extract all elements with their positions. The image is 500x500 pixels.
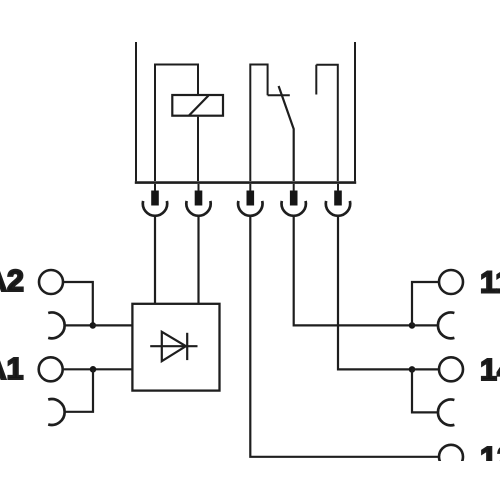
terminal socket 1 <box>143 201 167 216</box>
svg-text:A2: A2 <box>0 264 24 298</box>
terminal socket 4 <box>282 201 306 216</box>
wire: terminal 1 lead <box>154 184 156 216</box>
svg-text:12: 12 <box>480 441 500 475</box>
wire: terminal 3 down and across to terminal 12 <box>250 216 439 457</box>
socket 11 <box>438 312 454 338</box>
junction: A2 node <box>90 322 97 329</box>
wire: terminal 5 down and across to node 14 <box>338 216 412 369</box>
socket A1 <box>48 399 64 425</box>
bridge rectifier U1 <box>132 304 219 391</box>
junction: A1 node <box>90 366 97 373</box>
wire: coil lower lead to terminal 2 <box>197 117 199 181</box>
wire: socket A2 to junction <box>64 324 92 326</box>
wire: terminal 4 lead <box>293 184 295 191</box>
terminal socket 3 <box>238 201 262 216</box>
wire: terminal 4 down and across to node 11 <box>294 216 412 325</box>
terminal 14 (circle) <box>439 357 463 381</box>
terminal A2 (circle) <box>39 270 63 294</box>
wire: A1 to rectifier <box>64 368 133 370</box>
changeover contact: NO fixed contact stub <box>315 65 317 95</box>
terminal pin 4 (plug) <box>290 191 298 206</box>
socket A2 <box>48 313 64 339</box>
diode D1 (inside rectifier) <box>150 332 197 361</box>
wire: terminal 3 lead <box>249 184 251 191</box>
terminal pin 1 (plug) <box>151 191 159 206</box>
junction: node 11 <box>409 322 416 329</box>
wire: coil supply loop (terminal 1 up, over, down terminal 2) <box>155 65 198 182</box>
svg-text:A1: A1 <box>0 352 24 386</box>
wire: terminal 2 to rectifier <box>197 216 199 304</box>
terminal 12 (circle, cropped) <box>439 445 463 469</box>
terminal pin 3 (plug) <box>247 191 255 206</box>
relay coil K1 <box>172 95 223 116</box>
terminal socket 5 <box>326 201 350 216</box>
wire: node 11 up to terminal 11 <box>412 282 439 325</box>
terminal pin 2 (plug) <box>195 191 203 206</box>
wire: socket A1 to junction <box>64 369 93 412</box>
changeover contact: moving blade to terminal 4 <box>279 86 294 181</box>
wire: terminal 5 lead <box>337 184 339 191</box>
relay module outline (open top) <box>135 42 356 183</box>
wire: node 11 to socket 11 <box>412 324 438 326</box>
wire: A2 node to rectifier <box>93 324 133 326</box>
terminal pin 5 (plug) <box>334 191 342 206</box>
wire: NO branch to terminal 5 <box>316 65 338 181</box>
wire: A2 to junction <box>64 282 93 325</box>
wire: node 14 down to socket 14 <box>412 369 438 412</box>
wire: terminal 2 lead <box>198 184 200 191</box>
junction: node 14 <box>409 366 416 373</box>
terminal socket 2 <box>186 201 210 216</box>
terminal A1 (circle) <box>39 357 63 381</box>
svg-text:14: 14 <box>480 353 500 387</box>
wire: terminal 1 to rectifier <box>154 216 156 304</box>
svg-text:11: 11 <box>480 265 500 299</box>
terminal 11 (circle) <box>439 270 463 294</box>
wire: node 14 to terminal 14 <box>412 368 439 370</box>
changeover contact: NC fixed contact (terminal 3 branch with seat) <box>250 65 289 182</box>
socket 14 <box>438 399 454 425</box>
